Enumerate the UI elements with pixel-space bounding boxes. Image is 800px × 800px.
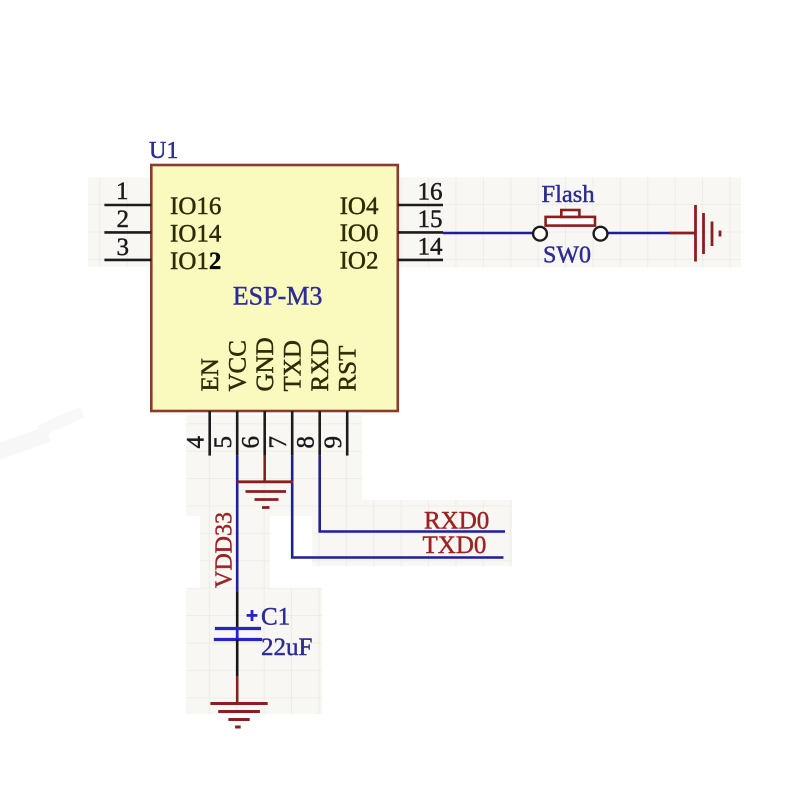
ground (right) bar 1	[694, 205, 697, 262]
svg-text:RST: RST	[334, 346, 361, 392]
svg-text:TXD: TXD	[279, 340, 306, 391]
ground (pin 6) bar 2	[246, 490, 287, 493]
pin 8 stub	[318, 411, 321, 456]
capacitor C1 bottom plate	[214, 638, 262, 641]
svg-text:ESP-M3: ESP-M3	[233, 281, 323, 310]
svg-text:5: 5	[210, 436, 237, 449]
ground (right) bar 3	[711, 222, 714, 247]
svg-text:IO12: IO12	[170, 248, 221, 275]
svg-text:8: 8	[293, 436, 320, 449]
svg-text:RXD: RXD	[307, 339, 334, 392]
svg-text:2: 2	[117, 206, 130, 233]
wire capacitor to ground	[236, 640, 239, 677]
svg-text:Flash: Flash	[542, 181, 595, 208]
wire VDD33 vertical	[236, 456, 239, 592]
svg-text:14: 14	[418, 234, 444, 261]
switch SW0 right terminal	[594, 227, 608, 241]
watermark smudge	[0, 407, 84, 462]
IC U1 body	[151, 165, 397, 411]
wire switch to ground	[607, 232, 669, 235]
ground (bottom) bar 1	[210, 702, 267, 705]
pin 16 stub	[398, 204, 443, 207]
ground (bottom) stem	[236, 676, 239, 703]
capacitor C1 top plate	[215, 627, 261, 630]
ground (right) bar 2	[702, 213, 705, 254]
svg-text:U1: U1	[149, 138, 178, 164]
svg-text:IO16: IO16	[170, 193, 221, 220]
svg-text:IO4: IO4	[340, 193, 379, 220]
wire VDD33 lower segment	[236, 592, 239, 627]
switch SW0 button	[561, 210, 579, 217]
pin 9 stub	[346, 411, 349, 456]
pin 6 stub	[263, 411, 266, 456]
svg-text:EN: EN	[197, 358, 224, 391]
capacitor C1 plus sign	[247, 610, 258, 621]
svg-text:9: 9	[320, 436, 347, 449]
ground (right) stem	[669, 232, 695, 235]
svg-text:VCC: VCC	[224, 340, 251, 391]
switch SW0 left terminal	[533, 227, 547, 241]
svg-text:SW0: SW0	[543, 243, 591, 269]
wire RXD0 vertical	[320, 456, 505, 532]
pin 1 stub	[104, 204, 151, 207]
switch SW0 body	[546, 217, 595, 226]
svg-text:IO2: IO2	[340, 248, 379, 275]
pin 4 stub	[208, 411, 211, 456]
svg-text:4: 4	[183, 436, 210, 449]
svg-text:RXD0: RXD0	[424, 508, 489, 535]
svg-text:6: 6	[238, 436, 265, 449]
ground (right) bar 4	[719, 231, 722, 237]
pin 5 stub	[236, 411, 239, 456]
wire TXD0 vertical	[292, 456, 503, 558]
wire pin15 to switch	[443, 232, 533, 235]
svg-text:22uF: 22uF	[261, 634, 312, 661]
svg-text:GND: GND	[252, 337, 279, 391]
ground (pin 6) bar 1	[237, 480, 293, 483]
svg-text:C1: C1	[261, 604, 290, 631]
ground (pin 6) stem	[263, 456, 266, 482]
svg-text:15: 15	[418, 206, 443, 233]
ground (bottom) bar 2	[218, 710, 260, 713]
pin 3 stub	[104, 259, 151, 262]
svg-text:16: 16	[418, 179, 443, 206]
ground (pin 6) bar 4	[262, 506, 270, 509]
ground (bottom) bar 3	[228, 718, 249, 721]
ground (pin 6) bar 3	[255, 498, 279, 501]
svg-text:3: 3	[117, 234, 130, 261]
svg-text:IO14: IO14	[170, 221, 222, 248]
pin 15 stub	[398, 231, 443, 234]
svg-text:VDD33: VDD33	[212, 512, 238, 588]
svg-text:TXD0: TXD0	[423, 532, 487, 559]
pin 7 stub	[291, 411, 294, 456]
capacitor C1 inter-plate nub	[236, 629, 239, 640]
pin 2 stub	[104, 231, 151, 234]
svg-text:7: 7	[265, 436, 292, 449]
pin 14 stub	[398, 259, 443, 262]
ground (bottom) bar 4	[235, 726, 241, 729]
svg-text:IO0: IO0	[340, 220, 379, 247]
svg-text:1: 1	[116, 178, 129, 205]
